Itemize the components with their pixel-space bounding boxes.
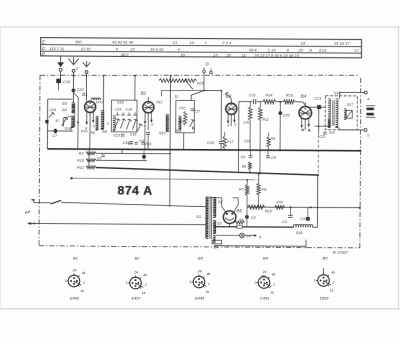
switch pivot wire xyxy=(190,95,192,100)
svg-text:S18: S18 xyxy=(296,231,304,235)
svg-text:P17: P17 xyxy=(227,140,234,144)
cap C2 xyxy=(289,207,291,215)
table row line 2 xyxy=(41,51,362,53)
antenna A2 symbol xyxy=(86,61,88,67)
svg-text:S13: S13 xyxy=(159,131,167,135)
primary winding S16a xyxy=(328,99,331,128)
svg-text:1: 1 xyxy=(189,280,191,284)
trimmer arrow 4 in IF box xyxy=(132,120,136,130)
coil core line xyxy=(74,104,76,127)
junction dot C3 xyxy=(310,206,312,208)
tube B3 pin 2 xyxy=(230,114,232,126)
wiring table frame xyxy=(41,38,362,58)
junction dot on dashed line xyxy=(73,75,75,77)
terminal D1 xyxy=(203,70,206,73)
svg-text:S2: S2 xyxy=(174,95,178,99)
mains wire 2 xyxy=(29,223,206,224)
resistor P17 vertical xyxy=(223,136,226,149)
svg-text:R11: R11 xyxy=(146,142,152,146)
svg-text:C453: C453 xyxy=(260,296,270,301)
wire C18 down xyxy=(57,83,59,90)
svg-text:14 9 10: 14 9 10 xyxy=(150,47,164,52)
svg-text:5: 5 xyxy=(234,123,236,127)
svg-text:12 32: 12 32 xyxy=(81,46,92,51)
wire C10 to bus xyxy=(220,144,222,150)
wire pot left to switch xyxy=(161,89,204,91)
resistor R8 vertical xyxy=(248,107,252,121)
svg-text:E444: E444 xyxy=(195,296,205,301)
svg-text:P10: P10 xyxy=(179,106,185,110)
junction dot screen bus xyxy=(238,149,240,151)
svg-text:24: 24 xyxy=(72,269,77,273)
svg-text:1: 1 xyxy=(126,281,128,285)
svg-text:C10: C10 xyxy=(207,141,215,145)
junction dot C2 xyxy=(290,206,292,208)
svg-text:3 21: 3 21 xyxy=(319,48,327,53)
svg-text:1: 1 xyxy=(205,40,207,45)
svg-text:1a: 1a xyxy=(205,290,209,294)
svg-text:2: 2 xyxy=(272,283,275,287)
tube B2 grid top xyxy=(147,97,149,101)
cap C19b below xyxy=(129,140,133,142)
wire C21 to output transformer xyxy=(321,106,325,108)
svg-text:1 10: 1 10 xyxy=(268,47,277,52)
svg-text:20: 20 xyxy=(297,47,303,52)
svg-text:B5: B5 xyxy=(323,255,329,260)
svg-text:2: 2 xyxy=(82,281,85,285)
svg-text:R10: R10 xyxy=(77,159,85,163)
HT line horizontal xyxy=(247,206,360,209)
resistor R19 xyxy=(283,100,295,104)
svg-text:2: 2 xyxy=(332,281,335,285)
resistor R14 xyxy=(263,100,276,104)
cap C23 xyxy=(323,131,327,133)
junction dot switch xyxy=(221,90,223,92)
svg-text:S10: S10 xyxy=(117,100,125,104)
cap C4b blob xyxy=(142,155,145,158)
svg-text:R15: R15 xyxy=(265,209,273,213)
svg-text:R4: R4 xyxy=(239,218,243,222)
switch S14 xyxy=(62,118,64,127)
resistor P10 in osc box xyxy=(184,111,187,125)
svg-text:11: 11 xyxy=(242,53,246,58)
wire choke to HT vertical xyxy=(313,226,318,228)
switch wire to B3 xyxy=(204,90,221,92)
svg-text:P12: P12 xyxy=(262,118,268,122)
resistor P8 vertical xyxy=(258,173,260,175)
cap C1 xyxy=(245,215,249,219)
mains tilde xyxy=(25,210,30,215)
heater return line xyxy=(214,245,306,248)
wire transformer to top terminal xyxy=(338,92,340,98)
voltage selector line xyxy=(71,178,258,179)
wire B2 anode to bus xyxy=(144,124,146,149)
tube B4 pin 3 xyxy=(308,118,310,126)
junction dot HT right end xyxy=(359,207,361,209)
tube B4 pin end marks xyxy=(302,129,304,131)
main vertical wire center xyxy=(169,76,172,207)
screen feed vertical xyxy=(237,102,239,173)
transformer core lines xyxy=(332,100,334,125)
transformer secondary S3 xyxy=(213,220,216,233)
svg-text:2: 2 xyxy=(207,282,210,286)
junction dots dashed line others xyxy=(86,75,88,77)
wire coil to switch top xyxy=(63,116,71,118)
svg-text:4a: 4a xyxy=(331,271,335,275)
bus junction dots xyxy=(77,148,79,150)
svg-text:C18: C18 xyxy=(63,79,71,84)
svg-text:57: 57 xyxy=(55,119,59,123)
long wire R12 to right xyxy=(96,168,318,176)
tube B4 pin 1 xyxy=(301,119,303,127)
tube B4 xyxy=(299,106,312,119)
tube B2 pin 2 xyxy=(147,113,149,130)
wire R19 to B4 xyxy=(295,101,303,103)
fuse on heater line xyxy=(237,225,243,228)
tube B2 pin 1 xyxy=(144,112,146,123)
svg-text:E.: E. xyxy=(42,39,46,44)
svg-text:45 2: 45 2 xyxy=(121,52,130,57)
svg-text:R 17937: R 17937 xyxy=(333,250,349,255)
svg-text:C11: C11 xyxy=(249,93,256,97)
wire R14 to junction xyxy=(276,101,283,103)
svg-text:24: 24 xyxy=(197,270,202,274)
cap C21 xyxy=(317,105,321,109)
cap C8 xyxy=(266,155,270,157)
cap C11 xyxy=(253,99,255,104)
earth terminal circle xyxy=(59,68,62,71)
choke S18 xyxy=(293,224,312,227)
svg-text:E457: E457 xyxy=(131,296,141,301)
svg-text:R19: R19 xyxy=(286,93,294,97)
coil S6 xyxy=(72,108,75,113)
pilot lamp L6 xyxy=(240,233,245,238)
transformer core xyxy=(209,197,211,239)
junction dot HT vertical crossing xyxy=(317,207,319,209)
svg-text:18 6: 18 6 xyxy=(249,47,258,52)
earth terminal lead xyxy=(60,56,62,62)
tube B1 pin 1 xyxy=(86,112,88,124)
mains wire 1 xyxy=(34,202,51,204)
earth symbol xyxy=(57,62,64,67)
svg-text:C16: C16 xyxy=(126,108,132,112)
svg-text:1a: 1a xyxy=(142,291,146,295)
antenna A1 symbol xyxy=(73,57,75,65)
tube socket B3 base diagram xyxy=(193,276,205,288)
svg-text:1: 1 xyxy=(64,279,66,283)
heater thick line xyxy=(214,226,293,228)
svg-text:A: A xyxy=(143,184,152,198)
wire S16 return junction xyxy=(315,125,330,127)
wire D down xyxy=(203,73,205,91)
svg-text:B5: B5 xyxy=(236,208,242,213)
tube socket B2 base diagram xyxy=(130,277,142,289)
coil S11 in osc box xyxy=(178,116,181,130)
trimmer arrow 1 in IF box xyxy=(115,119,119,129)
svg-text:S17: S17 xyxy=(347,103,355,107)
svg-text:C15: C15 xyxy=(130,133,137,137)
svg-text:6: 6 xyxy=(151,123,153,127)
tube socket B5 pin number xyxy=(323,268,325,274)
junction dot R6 xyxy=(249,172,251,174)
wire down to heater line xyxy=(229,223,231,226)
table row line 1 xyxy=(41,45,362,47)
svg-text:1: 1 xyxy=(254,281,256,285)
chassis dashed border right xyxy=(360,78,361,248)
svg-text:20: 20 xyxy=(225,53,231,58)
bus right end dot xyxy=(359,150,361,152)
svg-text:24: 24 xyxy=(133,271,138,275)
svg-text:R9: R9 xyxy=(271,137,276,141)
svg-text:C1: C1 xyxy=(251,216,256,220)
svg-text:C.: C. xyxy=(42,46,46,51)
wire R8 to bus xyxy=(249,102,251,107)
svg-text:4: 4 xyxy=(227,124,229,128)
svg-text:2: 2 xyxy=(144,283,147,287)
coil S5 xyxy=(72,103,75,108)
junction dot center top xyxy=(170,75,172,77)
antenna A2 wire down xyxy=(85,73,87,101)
svg-text:S11: S11 xyxy=(179,119,185,123)
junction dot B1 cathode xyxy=(77,121,79,123)
output transformer box xyxy=(325,96,357,130)
resistor P16 xyxy=(275,205,285,209)
svg-text:1828: 1828 xyxy=(320,296,330,301)
speaker terminal top xyxy=(364,91,367,94)
resistor R7 vertical xyxy=(246,180,248,185)
svg-text:874: 874 xyxy=(117,183,139,197)
svg-text:1: 1 xyxy=(314,279,316,283)
switch blade wire xyxy=(191,90,204,95)
svg-text:S6: S6 xyxy=(62,107,68,112)
svg-text:5: 5 xyxy=(107,122,109,126)
cap C7 blob xyxy=(54,129,57,134)
trimmer C12 xyxy=(72,88,76,92)
loudspeaker symbol xyxy=(367,108,374,111)
svg-text:4a: 4a xyxy=(207,272,211,276)
svg-text:567: 567 xyxy=(75,39,82,44)
speaker terminal bottom xyxy=(364,128,367,131)
svg-text:S4: S4 xyxy=(213,245,218,249)
tube B1 pin 2 xyxy=(89,113,91,127)
tube B3 pin 1 xyxy=(227,114,229,123)
svg-text:74 13 17 8 30 6 15 46 19: 74 13 17 8 30 6 15 46 19 xyxy=(254,53,299,58)
svg-text:176: 176 xyxy=(243,121,249,125)
tube B2 xyxy=(143,102,154,113)
trimmer arrow 3 in IF box xyxy=(126,120,130,130)
wire C12 to coil xyxy=(72,92,74,103)
tube B3 grid top wire xyxy=(230,99,232,103)
svg-text:1a: 1a xyxy=(270,291,274,295)
potentiometer R20 xyxy=(159,79,197,83)
trimmer arrow 2 in IF box xyxy=(120,119,124,129)
svg-text:B2: B2 xyxy=(135,255,141,260)
svg-text:P16: P16 xyxy=(277,200,283,204)
tube B1 xyxy=(84,101,95,112)
squiggle above S9 xyxy=(91,98,100,100)
oscillator box xyxy=(176,100,195,132)
junction dot D xyxy=(203,90,205,92)
antenna A2 terminal xyxy=(85,71,88,74)
cap below B2 xyxy=(146,131,150,133)
junction dot R7 top xyxy=(246,179,248,181)
svg-text:S19: S19 xyxy=(244,139,250,143)
svg-text:14+2: 14+2 xyxy=(96,101,104,105)
coil lower section xyxy=(71,116,74,128)
chassis dashed border bottom xyxy=(39,246,360,248)
transformer secondary S2 xyxy=(213,197,216,217)
fuse box S4 xyxy=(212,240,222,244)
wire bus drop left xyxy=(88,149,90,168)
page sheet edges xyxy=(0,26,400,28)
resistor P12 vertical xyxy=(258,107,262,120)
svg-text:D: D xyxy=(206,62,209,67)
antenna A1 wire down xyxy=(72,72,74,88)
wire bottom of input box xyxy=(47,130,72,132)
svg-text:S9: S9 xyxy=(102,129,108,134)
wire B1 anode down to bus xyxy=(89,126,91,149)
tube B2 pin 3 xyxy=(150,112,152,121)
svg-text:R12: R12 xyxy=(77,166,84,170)
HT dashed continuation up xyxy=(317,135,319,175)
svg-text:B2: B2 xyxy=(141,91,147,96)
wire C11 to R14 xyxy=(257,101,263,103)
cap C5 xyxy=(101,154,105,156)
wire B1 cathode down xyxy=(73,93,78,98)
coil S8 xyxy=(95,116,98,130)
ground bus thick line xyxy=(47,149,360,151)
tube socket B1 base diagram xyxy=(68,275,80,287)
anode wire B4 to C21 xyxy=(309,106,316,108)
svg-text:C9: C9 xyxy=(128,142,133,146)
svg-text:1a: 1a xyxy=(330,289,334,293)
transformer primary S1 xyxy=(206,197,209,239)
mains switch blade xyxy=(51,200,62,204)
wire top left horizontal xyxy=(48,98,73,100)
svg-text:4a: 4a xyxy=(272,273,276,277)
svg-text:R20: R20 xyxy=(197,81,203,85)
svg-text:4a: 4a xyxy=(82,271,86,275)
resistor R9 vertical xyxy=(267,137,270,148)
tube B3 pin 3 xyxy=(233,114,235,122)
svg-text:P.: P. xyxy=(42,52,46,57)
svg-text:B4: B4 xyxy=(263,255,269,260)
svg-text:a: a xyxy=(367,97,369,101)
junction dot anode line xyxy=(279,101,281,103)
secondary winding S16b xyxy=(335,99,338,128)
antenna A1 terminal xyxy=(72,69,75,72)
wire down to grid cap C10 xyxy=(220,91,222,141)
resistor R near B5 xyxy=(235,221,245,224)
svg-text:C21: C21 xyxy=(314,97,321,101)
svg-text:S12: S12 xyxy=(156,100,162,104)
tube B4 pin 2 xyxy=(304,119,306,130)
svg-text:B3: B3 xyxy=(198,255,204,260)
junction dot P12 xyxy=(259,172,261,174)
svg-text:C19: C19 xyxy=(50,108,56,112)
coil S9 feed from top xyxy=(103,76,105,111)
cap C17 in osc box xyxy=(191,108,195,110)
svg-text:C20: C20 xyxy=(283,113,291,117)
svg-text:2 3 4: 2 3 4 xyxy=(221,40,232,45)
wire stub to border xyxy=(305,246,307,248)
svg-text:C5: C5 xyxy=(97,156,102,160)
svg-text:S8: S8 xyxy=(91,131,95,135)
winding S15 stub xyxy=(328,120,330,127)
wire coil bottom xyxy=(70,127,72,131)
svg-text:S15: S15 xyxy=(329,131,335,135)
svg-text:6: 6 xyxy=(93,125,95,129)
cap C10 xyxy=(219,141,223,143)
mains wire 1 continued xyxy=(61,202,206,206)
coupling cap C20 xyxy=(278,111,282,115)
anode wire B3 to C11 xyxy=(239,101,252,103)
svg-text:S12: S12 xyxy=(176,129,182,133)
wire lamp right xyxy=(244,234,256,236)
svg-text:C14: C14 xyxy=(115,108,121,112)
svg-text:R14: R14 xyxy=(265,93,272,97)
svg-text:B1: B1 xyxy=(73,255,78,260)
resistor R6 vertical xyxy=(248,162,251,170)
svg-text:S14: S14 xyxy=(64,127,70,131)
wire left vertical xyxy=(46,99,48,149)
svg-text:4a: 4a xyxy=(143,273,147,277)
wire transformer to bottom terminal xyxy=(338,127,340,129)
capacitor C18 xyxy=(56,79,61,83)
svg-text:b: b xyxy=(367,133,369,137)
svg-text:113 7 11: 113 7 11 xyxy=(49,46,64,51)
svg-text:K16: K16 xyxy=(81,129,87,133)
svg-text:E442: E442 xyxy=(70,296,80,301)
switch arrow in osc box xyxy=(190,120,193,127)
svg-text:15 16 17: 15 16 17 xyxy=(334,41,350,46)
transformer secondary S4 winding xyxy=(213,235,215,242)
trimmer top bars in IF box xyxy=(116,114,120,116)
IF box feed wire xyxy=(134,76,136,101)
rectifier B5 xyxy=(223,211,236,224)
svg-text:S5: S5 xyxy=(62,101,68,106)
tube B3 xyxy=(226,103,237,114)
osc box output wire xyxy=(183,133,185,150)
tube socket B5 base diagram xyxy=(318,275,330,287)
svg-text:C13: C13 xyxy=(113,133,120,137)
svg-text:22: 22 xyxy=(129,46,135,51)
svg-text:R6: R6 xyxy=(242,165,247,169)
junction dot C20 bus xyxy=(279,149,281,151)
chassis dashed border top xyxy=(40,73,359,77)
svg-text:1a: 1a xyxy=(80,289,84,293)
resistor R15 xyxy=(248,205,265,209)
tube B1 pin 3 xyxy=(92,112,94,122)
coil S13 xyxy=(166,115,169,132)
wire C20 to bus xyxy=(279,102,281,150)
svg-text:C7: C7 xyxy=(52,133,58,138)
junction dot HT line right xyxy=(317,174,319,176)
IF transformer box xyxy=(111,100,137,132)
B5 anode wire left xyxy=(209,197,222,199)
svg-text:S16: S16 xyxy=(334,90,342,95)
wire to pilot lamp xyxy=(216,234,240,236)
terminal blob left xyxy=(45,120,48,123)
tube B4 grid cap xyxy=(304,102,306,106)
chassis dashed border left xyxy=(39,75,40,246)
svg-text:43 42 41 40: 43 42 41 40 xyxy=(112,40,134,45)
switch contact circle osc xyxy=(192,127,194,129)
pot wiper arrow xyxy=(185,80,193,90)
wire P12 down xyxy=(259,102,261,108)
terminal D2 xyxy=(210,71,213,74)
svg-text:S1: S1 xyxy=(196,214,201,219)
